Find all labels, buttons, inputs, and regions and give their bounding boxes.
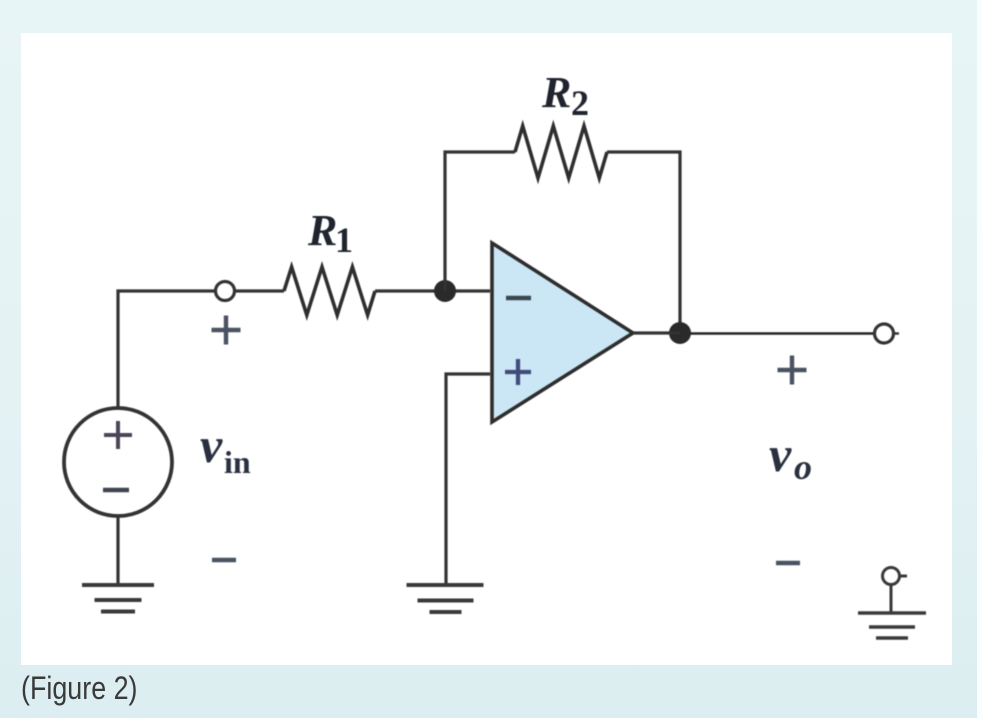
wire: terminal to R1 xyxy=(234,289,284,292)
wire: input left loop xyxy=(118,291,216,409)
wire: op-amp + input xyxy=(446,374,490,585)
resistor R2 xyxy=(515,126,607,178)
caption (Figure 2) xyxy=(21,670,138,707)
svg-text:R: R xyxy=(307,206,337,255)
wire: source to ground xyxy=(116,515,119,585)
minus label (output) xyxy=(776,561,800,566)
node: output junction xyxy=(669,322,691,344)
wire: output lead xyxy=(690,332,875,334)
voltage source Vin xyxy=(64,408,172,516)
node: inverting input junction xyxy=(434,280,456,302)
wire: feedback right xyxy=(607,152,680,333)
plus label (input) xyxy=(212,316,241,345)
svg-text:v: v xyxy=(769,426,792,482)
svg-text:in: in xyxy=(224,444,251,480)
op-amp U1 xyxy=(492,243,633,422)
right edge strip xyxy=(977,0,982,718)
ground (source) xyxy=(82,585,154,612)
minus label (input) xyxy=(212,558,236,563)
wire: feedback left xyxy=(445,152,515,291)
svg-text:2: 2 xyxy=(571,83,589,123)
resistor R1 xyxy=(284,267,375,315)
input terminal node xyxy=(216,282,235,301)
terminal ground (bottom right) xyxy=(858,568,926,639)
wire: op-amp output xyxy=(633,331,680,334)
plus label (output) xyxy=(778,356,807,385)
svg-text:1: 1 xyxy=(335,220,353,260)
svg-text:R: R xyxy=(541,68,571,117)
svg-text:v: v xyxy=(200,417,223,473)
output terminal node xyxy=(875,324,900,343)
ground (op-amp) xyxy=(407,585,484,612)
svg-text:o: o xyxy=(794,447,812,487)
wire: R1 to op-amp xyxy=(375,289,490,292)
